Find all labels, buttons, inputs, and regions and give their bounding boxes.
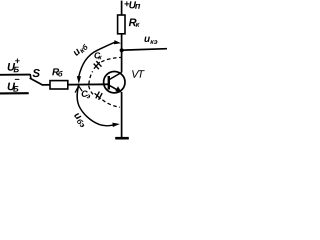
transistor VT circle (104, 72, 125, 93)
label R_k (129, 19, 140, 27)
node: collector output junction (120, 48, 124, 52)
label C_e (82, 91, 91, 99)
label VT (132, 70, 145, 78)
label C_k (94, 52, 102, 59)
transistor collector diagonal (109, 72, 121, 79)
capacitor C_e plates (96, 92, 100, 99)
wire: U_b+ rail (0, 74, 30, 76)
parasitic capacitance C_k dashed link (89, 71, 93, 84)
transistor emitter diagonal with arrow (109, 85, 121, 92)
wire: U_b- rail (0, 92, 29, 94)
capacitor C_k link crossing stroke (94, 62, 100, 69)
transistor base bar (108, 76, 110, 90)
capacitor C_k plates (94, 64, 99, 70)
label +U_p (124, 1, 140, 8)
ground (115, 137, 129, 140)
label u_be (72, 112, 87, 128)
label u_kb (73, 42, 88, 57)
switch S arm (30, 78, 43, 85)
wire: switch to base (under R_b) (43, 83, 109, 86)
wire: emitter lead (121, 92, 123, 138)
parasitic capacitance C_e dashed link (89, 86, 93, 95)
resistor R_k (118, 15, 125, 34)
label U_b- (8, 79, 20, 92)
resistor R_b (50, 81, 68, 89)
label u_ke (144, 37, 157, 44)
label S (33, 69, 40, 77)
voltage arc u_be base-emitter (77, 86, 113, 126)
voltage arc u_kb collector-base (79, 42, 115, 77)
capacitor C_e link crossing stroke (95, 93, 101, 99)
label R_b (52, 68, 63, 76)
wire: output u_ke (122, 49, 167, 51)
label U_b+ (8, 59, 20, 73)
wire: collector lead (121, 1, 123, 73)
switch S contact tick (29, 74, 32, 78)
